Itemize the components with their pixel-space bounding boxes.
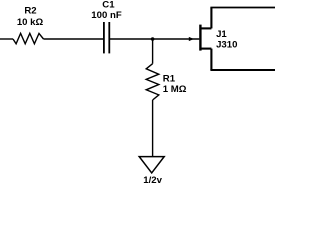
svg-text:1 MΩ: 1 MΩ xyxy=(163,84,187,95)
svg-text:10 kΩ: 10 kΩ xyxy=(17,17,44,28)
source stub xyxy=(201,48,211,50)
source riser xyxy=(210,49,212,70)
svg-text:100 nF: 100 nF xyxy=(91,10,122,21)
wire node to R1 xyxy=(152,39,154,64)
drain riser xyxy=(210,8,212,29)
transistor J1 (JFET) xyxy=(200,8,275,71)
capacitor C1 xyxy=(104,22,109,53)
resistor R1 xyxy=(146,64,159,100)
svg-text:1/2v: 1/2v xyxy=(143,175,162,183)
svg-text:R2: R2 xyxy=(24,6,36,17)
source rail xyxy=(210,69,275,71)
wire from left edge to R2 xyxy=(0,38,13,40)
wire R2 to C1 xyxy=(44,38,104,40)
drain rail xyxy=(210,7,275,9)
drain stub xyxy=(201,27,211,29)
svg-text:J1: J1 xyxy=(216,29,227,40)
gate arrowhead xyxy=(189,37,194,41)
node junction dot xyxy=(151,37,155,41)
gate channel bar xyxy=(199,25,201,51)
wire C1 to gate xyxy=(110,38,199,40)
ground symbol (open triangle) xyxy=(139,157,164,173)
resistor R2 xyxy=(13,33,44,43)
wire R1 to ground xyxy=(152,100,154,156)
svg-text:J310: J310 xyxy=(216,40,237,51)
